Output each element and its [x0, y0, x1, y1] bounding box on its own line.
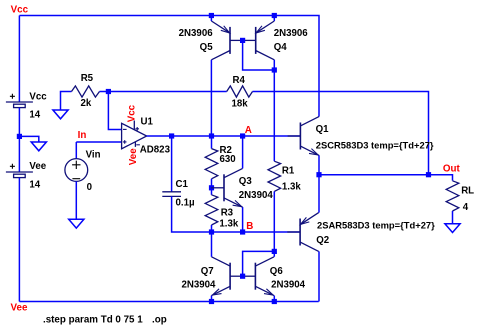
wire R3 top lead: [211, 188, 213, 195]
svg-text:Q6: Q6: [270, 266, 284, 277]
svg-text:2SCR583D3 temp={Td+27}: 2SCR583D3 temp={Td+27}: [316, 140, 434, 151]
svg-text:Out: Out: [443, 164, 461, 175]
wire R3 bottom lead: [211, 225, 213, 232]
junction rail Q4 emitter: [272, 13, 277, 18]
svg-text:2SAR583D3 temp={Td+27}: 2SAR583D3 temp={Td+27}: [317, 220, 435, 231]
junction battery midpoint: [17, 134, 22, 139]
svg-text:18k: 18k: [232, 98, 249, 109]
junction Q6 collector / R1: [272, 249, 277, 254]
svg-text:14: 14: [29, 179, 40, 190]
svg-text:RL: RL: [461, 186, 474, 197]
svg-text:1.3k: 1.3k: [282, 181, 301, 192]
transistor Q1 2SCR583D3: [299, 123, 301, 150]
svg-text:1.3k: 1.3k: [219, 218, 238, 229]
svg-text:Vcc: Vcc: [29, 91, 47, 102]
wire Out to RL: [429, 175, 453, 181]
transistor Q2 2SAR583D3: [299, 219, 301, 246]
wire Vee bottom rail: [19, 301, 318, 303]
junction Q4 collector tie: [272, 67, 277, 72]
wire to op-amp inverting input: [108, 92, 121, 130]
svg-text:R3: R3: [221, 208, 234, 219]
svg-text:B: B: [246, 221, 253, 232]
svg-text:In: In: [78, 130, 87, 141]
svg-text:0.1µ: 0.1µ: [176, 198, 195, 209]
wire base tie to Q6 collector: [243, 251, 275, 276]
svg-text:Q5: Q5: [200, 42, 214, 53]
junction Q7/Q6 bases: [240, 274, 245, 279]
wire Vin bottom lead: [75, 181, 77, 219]
wire Q2 collector to Vee rail: [318, 251, 320, 301]
ground Vin: [69, 219, 84, 228]
wire to mid ground: [19, 136, 38, 142]
wire Q6 collector stub: [273, 251, 275, 256]
wire node B row to Q2 base: [212, 231, 301, 233]
svg-text:2k: 2k: [81, 98, 92, 109]
wire R1 bottom to Q6 collector: [273, 191, 275, 251]
svg-text:Q3: Q3: [239, 176, 253, 187]
svg-text:U1: U1: [141, 117, 154, 128]
svg-text:Vee: Vee: [128, 148, 139, 165]
wire Q6 emitter to rail: [273, 296, 275, 302]
capacitor C1: [162, 191, 181, 193]
wire R5 left to ground: [61, 92, 72, 111]
junction Out node: [426, 172, 431, 177]
wire Q5 emitter stub: [210, 16, 212, 22]
svg-text:2N3904: 2N3904: [271, 279, 306, 290]
wire C1 bottom to node B row: [172, 196, 212, 232]
junction Q5/Q4 bases: [240, 38, 245, 43]
wire Q4 emitter stub: [273, 16, 275, 22]
transistor Q5 2N3906: [229, 27, 231, 54]
wire Q1 emitter to output node: [318, 155, 320, 174]
svg-text:Q7: Q7: [201, 266, 214, 277]
wire Vcc top rail to Q1 collector: [19, 16, 319, 117]
wire left Vcc vertical: [18, 16, 20, 103]
wire R4 to Out node feedback: [253, 92, 429, 175]
op-amp U1 AD823: [122, 123, 147, 149]
wire R2 bottom lead: [211, 179, 213, 188]
ground mid supplies: [31, 142, 46, 151]
wire Q3 collector to node A: [242, 136, 244, 168]
junction rail Q7 emitter: [209, 299, 214, 304]
svg-text:Vee: Vee: [29, 161, 46, 172]
resistor R1: [268, 161, 281, 191]
svg-text:Vin: Vin: [86, 150, 101, 161]
svg-text:AD823: AD823: [140, 144, 171, 155]
resistor R5: [72, 86, 100, 97]
wire Q3 emitter to node B: [242, 207, 244, 232]
transistor Q7 2N3904: [229, 263, 231, 290]
wire Vin to op-amp noninverting input: [76, 141, 121, 143]
wire Q7 emitter to rail: [211, 296, 213, 302]
wire R5 to R4: [100, 91, 227, 93]
junction rail Q6 emitter: [272, 299, 277, 304]
transistor Q6 2N3904: [254, 263, 256, 290]
junction Q1/Q2 emitters output: [316, 172, 321, 177]
junction output to C1: [169, 133, 174, 138]
junction B row R3/Q7: [209, 229, 214, 234]
resistor R3: [205, 195, 218, 225]
svg-text:C1: C1: [176, 179, 189, 190]
junction feedback node: [106, 89, 111, 94]
wire Q4 collector down to R1: [273, 60, 275, 161]
svg-text:2N3906: 2N3906: [274, 28, 309, 39]
node A junction: [240, 133, 245, 138]
svg-text:14: 14: [29, 109, 40, 120]
wire Q5 collector down to node A row: [210, 60, 212, 136]
voltage source Vin: [65, 159, 88, 182]
battery plates Vee: [6, 171, 33, 173]
wire Vin top lead: [75, 142, 77, 159]
svg-text:4: 4: [463, 202, 469, 213]
ground R5: [53, 110, 68, 119]
svg-text:2N3906: 2N3906: [179, 28, 214, 39]
transistor Q3 2N3904: [223, 174, 225, 201]
wire R2 top lead: [211, 136, 213, 149]
svg-text:R4: R4: [233, 75, 246, 86]
svg-text:Q1: Q1: [316, 124, 330, 135]
svg-text:Vcc: Vcc: [11, 5, 29, 16]
svg-text:2N3904: 2N3904: [181, 279, 216, 290]
svg-text:Vee: Vee: [11, 302, 28, 313]
wire RL bottom lead: [452, 211, 454, 224]
node B junction: [240, 229, 245, 234]
wire Q2 emitter to output node: [318, 175, 320, 213]
svg-text:Q4: Q4: [274, 42, 288, 53]
svg-text:Vcc: Vcc: [127, 104, 138, 122]
resistor R4: [227, 86, 253, 97]
svg-text:.step param Td 0 75 1: .step param Td 0 75 1: [43, 314, 143, 325]
junction output to R2: [209, 133, 214, 138]
ground RL: [445, 224, 460, 233]
wire C1 top lead: [171, 136, 173, 192]
svg-text:A: A: [245, 125, 252, 136]
svg-text:Q2: Q2: [316, 235, 329, 246]
wire left Vee vertical: [18, 178, 20, 302]
wire base tie to Q4 collector: [243, 40, 275, 70]
svg-text:0: 0: [87, 182, 92, 193]
svg-text:2N3904: 2N3904: [239, 190, 274, 201]
junction R2/R3/Q3 base: [209, 185, 214, 190]
battery plates Vcc: [6, 101, 33, 103]
resistor RL: [446, 181, 459, 211]
transistor Q4 2N3906: [255, 27, 257, 54]
wire between batteries: [18, 108, 20, 172]
svg-text:.op: .op: [152, 314, 167, 325]
svg-text:R5: R5: [81, 73, 94, 84]
wire output row: [319, 174, 429, 176]
wire Q7 collector to node B row: [211, 232, 213, 257]
resistor R2: [205, 149, 218, 179]
svg-text:630: 630: [220, 154, 236, 165]
svg-text:R1: R1: [282, 165, 295, 176]
junction rail Q5 emitter: [209, 13, 214, 18]
wire op-amp output row to Q1 base: [147, 135, 301, 137]
